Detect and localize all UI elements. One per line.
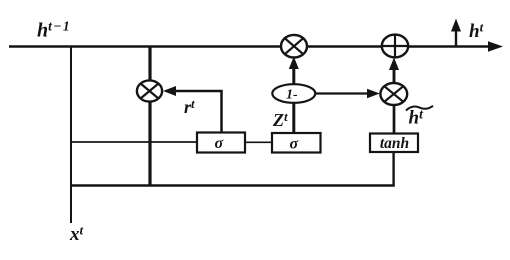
label h-tilde(t): [406, 106, 433, 129]
multiply node M1: [137, 80, 162, 101]
wire top h(t-1) to h(t): [9, 45, 492, 48]
tanh box: [370, 134, 418, 153]
svg-text:1-: 1-: [286, 88, 298, 103]
wire arrow one-minus to multiply M3: [315, 92, 372, 94]
add node A1: [382, 35, 408, 58]
wire multiply M3 down to tanh: [393, 104, 396, 134]
svg-text:tanh: tanh: [380, 135, 409, 152]
svg-text:σ: σ: [215, 135, 224, 152]
wire vertical thick through multiply M1: [148, 46, 151, 187]
wire arrow h(t) up output: [455, 29, 457, 47]
wire arrow one-minus up to multiply M2: [292, 62, 295, 86]
multiply node M3: [380, 83, 407, 105]
sigma box R: [197, 133, 245, 153]
wire horizontal to sigma R: [70, 141, 197, 143]
arrowhead output right: [488, 41, 503, 51]
wire sigma R to sigma Z: [245, 141, 272, 143]
svg-text:σ: σ: [290, 136, 299, 153]
wire vertical x(t) input: [70, 46, 72, 224]
wire arrow multiply M3 up to add A1: [393, 63, 396, 84]
wire bottom to tanh: [70, 152, 394, 186]
multiply node M2: [281, 35, 307, 58]
one-minus ellipse: [272, 84, 315, 103]
sigma box Z: [272, 133, 321, 153]
wire sigma Z up to one-minus: [292, 100, 295, 134]
wire arrow into multiply M1: [168, 91, 222, 133]
